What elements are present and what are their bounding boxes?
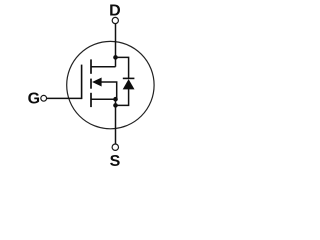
diode D1 cathode bar: [123, 77, 135, 79]
wire gate: [47, 97, 82, 99]
wire source stub: [91, 98, 116, 100]
wire diode bottom: [116, 89, 129, 105]
transistor Q1 body circle: [67, 41, 154, 128]
wire diode top: [116, 57, 129, 78]
terminal G: [41, 95, 47, 101]
node drain-diode junction: [113, 55, 118, 60]
wire drain stub: [91, 66, 116, 68]
wire source: [115, 99, 117, 144]
transistor Q1 channel dash bottom: [90, 93, 92, 107]
transistor Q1 channel dash middle: [90, 79, 92, 89]
terminal S: [112, 144, 118, 150]
transistor Q1 gate bar: [81, 65, 83, 100]
wire body to source: [102, 82, 117, 99]
svg-text:S: S: [110, 153, 121, 170]
transistor Q1 channel dash top: [90, 59, 92, 73]
svg-text:D: D: [109, 2, 121, 19]
transistor Q1 body arrow: [92, 78, 102, 87]
node source-body junction: [113, 97, 118, 102]
diode D1 anode triangle: [123, 79, 135, 89]
wire drain: [115, 24, 117, 67]
terminal D: [112, 17, 118, 23]
node source-diode junction: [113, 103, 118, 108]
svg-text:G: G: [28, 90, 40, 107]
